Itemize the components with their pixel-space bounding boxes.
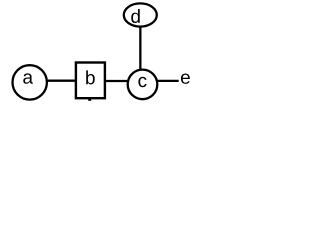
node a label bbox=[23, 73, 33, 83]
wire a-b bbox=[44, 80, 77, 82]
node e label bbox=[181, 73, 190, 83]
node d ellipse bbox=[124, 3, 157, 26]
node d label bbox=[131, 9, 140, 23]
stub below b bbox=[88, 98, 91, 101]
wire d-c bbox=[139, 26, 141, 71]
wire b-c bbox=[105, 80, 129, 82]
node b label bbox=[86, 70, 95, 84]
node c circle bbox=[128, 70, 158, 100]
node b box bbox=[76, 63, 105, 99]
node a circle bbox=[13, 65, 47, 99]
node c label bbox=[138, 77, 146, 87]
wire c-e bbox=[156, 80, 179, 82]
